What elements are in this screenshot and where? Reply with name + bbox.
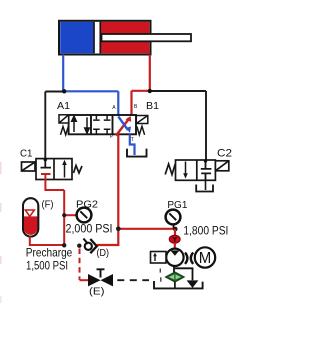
svg-text:A1: A1 [57, 100, 70, 112]
svg-text:1,800 PSI: 1,800 PSI [183, 223, 228, 237]
svg-text:T: T [131, 137, 134, 143]
svg-text:1,500 PSI: 1,500 PSI [26, 259, 68, 273]
svg-text:(F): (F) [42, 200, 54, 211]
svg-text:M: M [199, 250, 212, 267]
svg-text:(D): (D) [97, 248, 110, 259]
svg-text:B1: B1 [146, 100, 159, 112]
svg-text:(E): (E) [89, 287, 105, 298]
svg-text:2,000 PSI: 2,000 PSI [66, 221, 113, 235]
svg-text:Precharge: Precharge [26, 245, 73, 259]
svg-text:C1: C1 [20, 148, 33, 160]
svg-text:C2: C2 [217, 148, 232, 160]
